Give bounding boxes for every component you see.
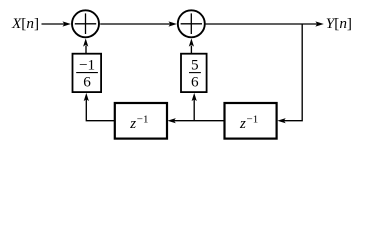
summer S1 (adder circle with plus) (72, 10, 99, 37)
wire summer S1 to summer S2 (100, 23, 171, 25)
arrowhead into gain 5/6 bottom (192, 93, 197, 101)
wire junction up into gain block 5/6 (193, 98, 195, 121)
arrowhead into summer S1 bottom (83, 38, 88, 46)
svg-text:z: z (239, 116, 246, 132)
arrowhead at output Y[n] (315, 21, 323, 26)
svg-text:z: z (129, 116, 136, 132)
gain block 5/6 (181, 54, 207, 92)
output label Y[n] (326, 15, 352, 32)
svg-text:Y[n]: Y[n] (326, 15, 352, 32)
svg-text:−1: −1 (247, 114, 259, 126)
wire gain -1/6 up to summer S1 (85, 46, 87, 54)
wire delay D2 to delay D1 (junction node at x=194) (174, 120, 225, 122)
svg-text:−1: −1 (137, 114, 149, 126)
arrowhead into summer S2 bottom (189, 38, 194, 46)
svg-text:6: 6 (191, 74, 199, 91)
svg-text:5: 5 (191, 57, 199, 74)
svg-text:−1: −1 (79, 57, 95, 74)
arrowhead into gain -1/6 bottom (84, 93, 89, 101)
arrowhead into summer S2 left (169, 21, 177, 26)
input label X[n] (11, 15, 39, 32)
gain block -1/6 (73, 54, 102, 92)
wire gain 5/6 up to summer S2 (190, 46, 192, 54)
svg-text:X[n]: X[n] (11, 15, 39, 32)
wire summer S2 to output Y[n] (feedback tap node at x=302) (206, 23, 319, 25)
delay block D1 (z^-1) (115, 103, 167, 139)
delay block D2 (z^-1) (225, 103, 277, 139)
arrowhead into summer S1 left (63, 21, 71, 26)
summer S2 (adder circle with plus) (178, 10, 205, 37)
wire feedback drop from output node down and left to delay D2 (284, 24, 303, 121)
wire X[n] to summer S1 (42, 23, 66, 25)
arrowhead into delay D2 right (277, 118, 285, 123)
svg-text:6: 6 (83, 74, 91, 91)
arrowhead into delay D1 right (167, 118, 175, 123)
wire delay D1 left and up into gain block -1/6 (86, 98, 115, 121)
